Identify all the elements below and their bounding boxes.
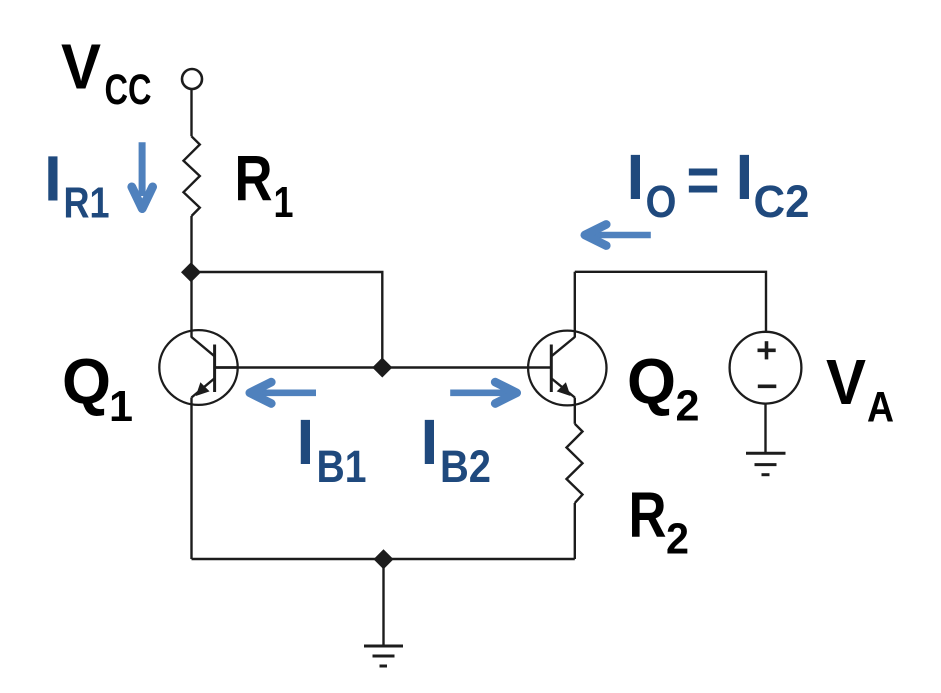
svg-text:CC: CC (105, 66, 152, 114)
svg-text:I: I (627, 141, 645, 213)
Vcc terminal (182, 69, 202, 89)
label R1 (235, 142, 294, 226)
svg-text:Q: Q (62, 346, 111, 418)
resistor R2 (567, 424, 583, 503)
svg-text:I: I (421, 406, 439, 478)
ground (VA) (746, 453, 786, 474)
wire Q2 emitter to R2 (574, 398, 576, 424)
svg-text:Q: Q (627, 346, 676, 418)
wire node A to Q1 collector (190, 272, 192, 338)
current arrow I_R1 (down) (132, 142, 153, 208)
wire R1 to node A (190, 216, 192, 272)
wire Q2 collector to VA top (575, 272, 766, 332)
wire bottom rail (192, 558, 575, 560)
label Q1 (62, 346, 133, 431)
svg-text:I: I (44, 142, 62, 214)
source VA (730, 332, 802, 404)
wire base bus Q1 to Q2 (215, 366, 552, 368)
wire Vcc to R1 (190, 89, 192, 136)
transistor Q2 (528, 331, 606, 406)
node C (rail / ground junction) (374, 549, 394, 569)
label I_O = I_C2 (627, 141, 810, 227)
label VA (826, 346, 894, 432)
wire diode connection: node A right then down to base junction (192, 272, 383, 368)
svg-text:B2: B2 (440, 441, 491, 492)
current arrow I_B1 (left) (250, 382, 316, 403)
label I_B2 (421, 406, 492, 492)
svg-text:C2: C2 (754, 176, 810, 227)
svg-text:A: A (867, 383, 894, 431)
ground (center) (364, 646, 403, 666)
label R2 (629, 479, 690, 563)
wire R2 to rail (574, 503, 576, 559)
svg-text:1: 1 (274, 178, 294, 227)
svg-text:=: = (687, 144, 720, 216)
node A (R1 / Q1 collector junction) (181, 262, 201, 282)
wire VA to ground (764, 404, 766, 453)
svg-text:B1: B1 (317, 441, 367, 492)
svg-text:I: I (736, 141, 754, 213)
current arrow I_O (left) (585, 224, 651, 245)
svg-text:I: I (297, 406, 315, 478)
svg-text:O: O (646, 176, 677, 227)
svg-text:2: 2 (666, 514, 689, 563)
svg-text:2: 2 (676, 382, 700, 431)
label I_B1 (297, 406, 367, 492)
transistor Q1 (159, 330, 238, 405)
svg-text:V: V (61, 30, 101, 102)
wire Q1 emitter down to rail (190, 398, 192, 560)
wire rail to ground (382, 559, 384, 646)
label Q2 (627, 346, 700, 431)
current arrow I_B2 (right) (450, 382, 517, 403)
svg-text:R: R (235, 142, 273, 214)
label Vcc (61, 30, 152, 114)
svg-text:R1: R1 (64, 179, 110, 228)
wire Q2 collector up (574, 272, 576, 338)
svg-text:R: R (629, 479, 667, 551)
label I_R1 (44, 142, 110, 227)
svg-text:V: V (826, 346, 866, 418)
svg-text:1: 1 (109, 382, 133, 431)
resistor R1 (184, 136, 200, 216)
node B (base junction) (372, 358, 392, 378)
